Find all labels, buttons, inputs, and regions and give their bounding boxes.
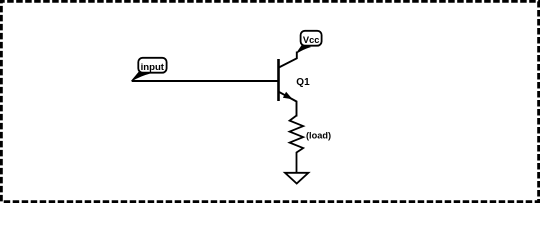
svg-text:Vcc: Vcc [303,35,320,45]
svg-text:Q1: Q1 [296,77,310,88]
svg-text:input: input [141,62,165,73]
svg-text:(load): (load) [306,131,331,141]
